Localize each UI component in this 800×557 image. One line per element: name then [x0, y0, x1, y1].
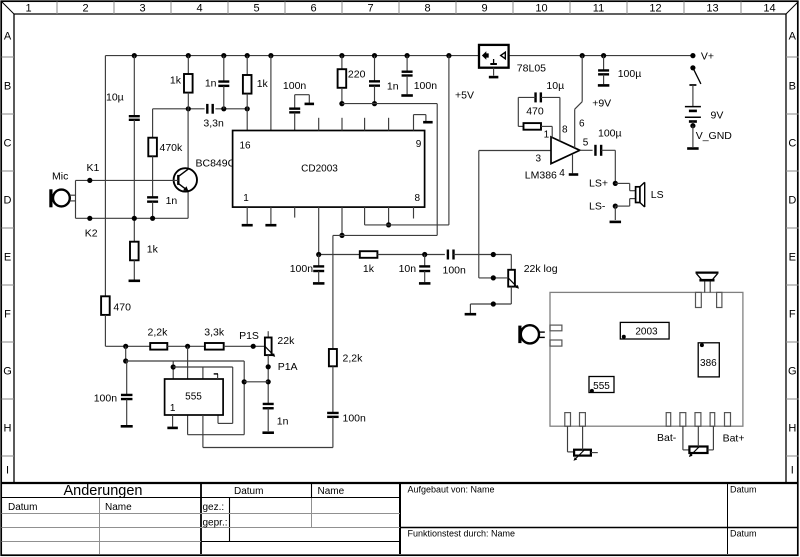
svg-text:1n: 1n [277, 416, 289, 428]
svg-text:gepr.:: gepr.: [203, 518, 228, 529]
svg-text:470k: 470k [160, 142, 184, 154]
svg-text:gez.:: gez.: [203, 502, 225, 513]
svg-text:6: 6 [310, 2, 316, 14]
svg-text:1: 1 [170, 403, 176, 414]
svg-text:1k: 1k [257, 78, 269, 90]
svg-text:555: 555 [593, 381, 610, 392]
svg-text:11: 11 [593, 2, 604, 14]
svg-text:LM386: LM386 [525, 170, 557, 182]
svg-text:D: D [788, 195, 796, 207]
svg-text:3: 3 [139, 2, 145, 14]
svg-text:3,3k: 3,3k [204, 327, 225, 339]
svg-text:9V: 9V [711, 110, 724, 122]
svg-text:V_GND: V_GND [696, 130, 733, 142]
svg-text:C: C [788, 138, 796, 150]
svg-text:100n: 100n [343, 413, 367, 425]
svg-text:8: 8 [414, 193, 420, 204]
svg-text:Name: Name [105, 502, 132, 513]
svg-text:100n: 100n [443, 265, 467, 277]
svg-text:5: 5 [253, 2, 259, 14]
svg-text:V+: V+ [701, 50, 714, 62]
svg-text:F: F [789, 309, 796, 321]
svg-text:470: 470 [113, 301, 131, 313]
svg-text:K1: K1 [87, 162, 100, 174]
svg-text:Bat+: Bat+ [723, 433, 745, 445]
svg-text:220: 220 [348, 68, 366, 80]
svg-text:9: 9 [416, 139, 422, 150]
svg-text:LS: LS [651, 189, 664, 201]
svg-text:10µ: 10µ [106, 92, 124, 104]
svg-text:E: E [789, 252, 796, 264]
svg-text:5: 5 [583, 138, 589, 149]
svg-text:14: 14 [763, 2, 775, 14]
svg-text:G: G [788, 366, 797, 378]
svg-text:H: H [788, 423, 796, 435]
svg-text:2: 2 [82, 2, 88, 14]
svg-text:100n: 100n [94, 393, 118, 405]
svg-text:3: 3 [536, 154, 542, 165]
svg-text:13: 13 [706, 2, 718, 14]
svg-text:22k log: 22k log [524, 263, 558, 275]
svg-text:4: 4 [196, 2, 202, 14]
svg-text:16: 16 [240, 140, 252, 151]
svg-text:555: 555 [185, 391, 202, 402]
svg-text:+9V: +9V [592, 98, 611, 110]
svg-text:Datum: Datum [730, 485, 757, 495]
svg-text:Funktionstest durch: Name: Funktionstest durch: Name [408, 529, 516, 539]
svg-text:2,2k: 2,2k [148, 327, 169, 339]
svg-text:10n: 10n [399, 263, 417, 275]
svg-text:H: H [4, 423, 12, 435]
svg-text:I: I [6, 465, 9, 477]
svg-text:10: 10 [535, 2, 547, 14]
svg-text:100n: 100n [414, 80, 438, 92]
svg-text:100µ: 100µ [618, 68, 642, 80]
svg-text:Änderungen: Änderungen [63, 482, 142, 499]
svg-text:100n: 100n [283, 80, 307, 92]
svg-text:1n: 1n [387, 81, 399, 93]
svg-text:1: 1 [544, 129, 550, 140]
svg-text:1: 1 [243, 193, 249, 204]
svg-text:+5V: +5V [455, 89, 474, 101]
svg-text:2,2k: 2,2k [343, 353, 364, 365]
svg-text:Aufgebaut von: Name: Aufgebaut von: Name [408, 485, 495, 495]
svg-text:22k: 22k [277, 335, 295, 347]
svg-text:Datum: Datum [234, 486, 263, 497]
svg-text:P1S: P1S [239, 330, 259, 342]
svg-text:G: G [3, 366, 12, 378]
svg-text:78L05: 78L05 [517, 63, 546, 75]
svg-text:8: 8 [562, 124, 568, 135]
svg-text:LS-: LS- [589, 200, 606, 212]
svg-text:8: 8 [424, 2, 430, 14]
svg-text:Bat-: Bat- [657, 432, 677, 444]
svg-text:Mic: Mic [52, 171, 68, 183]
svg-text:9: 9 [481, 2, 487, 14]
svg-text:Datum: Datum [8, 502, 37, 513]
svg-text:C: C [4, 138, 12, 150]
svg-text:BC849C: BC849C [196, 158, 236, 170]
svg-text:12: 12 [649, 2, 661, 14]
svg-text:Name: Name [318, 486, 345, 497]
svg-text:100µ: 100µ [598, 127, 622, 139]
svg-text:D: D [4, 195, 12, 207]
svg-text:6: 6 [579, 118, 585, 129]
svg-text:470: 470 [526, 105, 544, 117]
svg-text:1k: 1k [147, 244, 159, 256]
svg-text:3,3n: 3,3n [203, 118, 224, 130]
svg-text:LS+: LS+ [589, 177, 608, 189]
svg-text:1n: 1n [205, 78, 217, 90]
svg-text:B: B [4, 81, 11, 93]
svg-text:1n: 1n [166, 195, 178, 207]
svg-text:4: 4 [559, 168, 565, 179]
svg-text:10µ: 10µ [546, 80, 564, 92]
svg-text:386: 386 [700, 358, 717, 369]
svg-text:I: I [791, 465, 794, 477]
svg-text:A: A [789, 31, 797, 43]
svg-text:E: E [4, 252, 11, 264]
svg-text:2003: 2003 [635, 327, 658, 338]
svg-text:1k: 1k [363, 263, 375, 275]
svg-text:B: B [789, 81, 796, 93]
svg-text:100n: 100n [290, 263, 314, 275]
svg-text:7: 7 [367, 2, 373, 14]
svg-text:Datum: Datum [730, 529, 757, 539]
svg-text:CD2003: CD2003 [301, 164, 338, 175]
svg-text:A: A [4, 31, 12, 43]
svg-text:1k: 1k [170, 75, 182, 87]
svg-text:F: F [4, 309, 11, 321]
svg-text:P1A: P1A [278, 361, 298, 373]
svg-text:1: 1 [25, 2, 31, 14]
svg-text:K2: K2 [85, 228, 98, 240]
